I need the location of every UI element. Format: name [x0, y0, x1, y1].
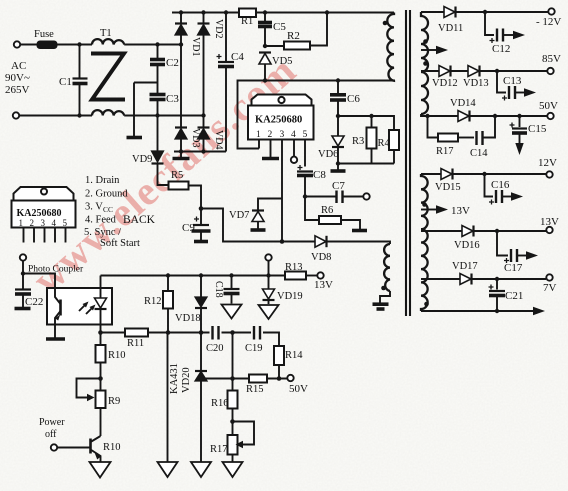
- arrow return C12: [513, 31, 525, 39]
- wire R2 to rail: [310, 13, 327, 46]
- svg-text:C7: C7: [332, 180, 345, 192]
- label AC 90V~265V: [5, 60, 30, 96]
- junction AC bottom to VD2 leg: [201, 113, 205, 117]
- arrow return rail: [533, 307, 545, 315]
- terminal power off: [51, 444, 57, 450]
- svg-text:4: 4: [52, 218, 57, 228]
- fuse F1: [37, 41, 57, 49]
- photo coupler U3 box: [47, 288, 112, 325]
- resistor R2: [284, 42, 310, 50]
- svg-text:off: off: [45, 429, 57, 440]
- arrow light 2: [86, 305, 96, 315]
- svg-text:VD9: VD9: [132, 154, 152, 165]
- resistor R11: [125, 329, 148, 337]
- junction Vcc storage node: [199, 206, 204, 211]
- svg-text:VD11: VD11: [438, 23, 463, 34]
- diode VD2: [198, 13, 210, 128]
- svg-text:5: 5: [63, 218, 68, 228]
- resistor R5: [169, 182, 189, 190]
- junction C15: [517, 114, 521, 118]
- arrow tap upper: [436, 46, 448, 54]
- diode VD19: [263, 276, 275, 305]
- svg-text:1: 1: [19, 218, 24, 228]
- ground bar pin2: [262, 157, 279, 161]
- svg-text:R5: R5: [171, 170, 183, 181]
- svg-text:C17: C17: [504, 262, 523, 274]
- svg-text:VD17: VD17: [452, 261, 478, 272]
- diode VD6: [332, 116, 344, 164]
- diode VD4: [198, 128, 210, 152]
- svg-text:Power: Power: [39, 417, 65, 428]
- svg-text:VD5: VD5: [272, 56, 292, 67]
- terminal 13V output left: [317, 272, 323, 278]
- ground bar bridge negative: [173, 152, 190, 159]
- wire AC bottom: [19, 115, 92, 117]
- svg-text:R3: R3: [352, 136, 364, 147]
- junction VD18 rail: [199, 273, 203, 277]
- junction VD19 rail: [266, 273, 270, 277]
- svg-text:T1: T1: [100, 28, 112, 39]
- capacitor C9 electrolytic: [192, 209, 211, 242]
- terminal -12V: [548, 8, 554, 14]
- resistor R10: [96, 333, 106, 391]
- wire AC top to bridge: [124, 44, 181, 46]
- svg-text:VD8: VD8: [311, 252, 331, 263]
- svg-text:C3: C3: [166, 93, 179, 105]
- svg-text:- 12V: - 12V: [536, 16, 561, 28]
- transistor phototransistor: [55, 288, 61, 325]
- svg-text:R9: R9: [108, 396, 120, 407]
- terminal 85V: [547, 68, 553, 74]
- diode LED coupler: [95, 298, 107, 332]
- potentiometer R9: [77, 379, 106, 437]
- svg-text:VD2: VD2: [213, 19, 224, 38]
- wire VD8 to feedback winding: [327, 242, 390, 245]
- node polarity dot secondary1: [423, 39, 428, 44]
- node polarity dot secondary4: [424, 302, 429, 307]
- junction R9 wiper: [98, 376, 103, 381]
- junction pin5 node: [303, 194, 307, 198]
- capacitor C22: [15, 274, 32, 309]
- svg-text:85V: 85V: [542, 53, 561, 65]
- capacitor C14: [477, 116, 496, 145]
- svg-text:90V~: 90V~: [5, 72, 30, 84]
- capacitor C15 electrolytic: [510, 116, 528, 143]
- svg-text:R1: R1: [241, 16, 253, 27]
- terminal pin4 feed: [291, 157, 297, 163]
- svg-text:VD4: VD4: [213, 130, 224, 149]
- junction C1 top: [77, 42, 81, 46]
- svg-text:KA431: KA431: [169, 363, 180, 394]
- terminal upper aux: [265, 254, 271, 260]
- diode VD20: [195, 333, 207, 463]
- svg-text:R11: R11: [127, 338, 144, 349]
- ground triangle C18: [222, 305, 242, 319]
- wire node to R6: [305, 197, 319, 221]
- junction VD6 bottom: [336, 161, 340, 165]
- ground bar R6: [352, 229, 367, 233]
- junction pin3 on Vcc run: [280, 239, 285, 244]
- svg-text:R2: R2: [287, 30, 300, 42]
- junction C17: [495, 229, 499, 233]
- svg-text:VD1: VD1: [190, 37, 201, 56]
- arrow tap lower: [436, 205, 448, 213]
- svg-text:7V: 7V: [543, 282, 557, 294]
- terminal AC line input bottom: [13, 112, 19, 118]
- arrow light 1: [79, 302, 89, 312]
- svg-text:3. V: 3. V: [85, 202, 103, 213]
- wire drop to R16 node: [232, 333, 234, 379]
- svg-text:50V: 50V: [289, 383, 308, 395]
- ground bar VD6: [331, 164, 346, 172]
- wire R13 to terminal: [306, 275, 317, 277]
- svg-text:2: 2: [268, 130, 273, 140]
- svg-text:R13: R13: [285, 262, 303, 273]
- svg-text:VD18: VD18: [175, 313, 201, 324]
- wire tap arrow lower: [421, 209, 436, 211]
- rail bridge positive top: [172, 12, 394, 14]
- junction R3 top: [369, 114, 373, 118]
- resistor R14: [274, 346, 284, 378]
- svg-text:C8: C8: [313, 169, 326, 181]
- diode VD16: [462, 226, 474, 237]
- ground triangle R17: [223, 462, 243, 477]
- wire 12V line lower: [421, 173, 546, 175]
- svg-text:C9: C9: [182, 222, 195, 234]
- arrow return C16: [511, 192, 523, 200]
- wire 50V line: [421, 114, 547, 116]
- node polarity dot feedback: [381, 286, 386, 291]
- svg-text:C14: C14: [470, 148, 488, 159]
- wire return rail bottom: [421, 310, 533, 312]
- terminal feedback 13V left: [20, 254, 26, 260]
- capacitor C16 electrolytic: [485, 174, 512, 205]
- svg-text:C19: C19: [245, 343, 263, 354]
- ground triangle transistor: [90, 462, 111, 478]
- svg-text:KA250680: KA250680: [255, 115, 302, 126]
- svg-text:R15: R15: [246, 384, 264, 395]
- svg-text:R12: R12: [144, 296, 162, 307]
- wire AC bottom to bridge: [124, 115, 203, 117]
- svg-text:BACK: BACK: [123, 214, 156, 226]
- svg-text:5: 5: [303, 130, 308, 140]
- wire C3 to VD9: [157, 116, 159, 151]
- junction C22: [21, 271, 25, 275]
- junction VD4 bottom: [201, 149, 205, 153]
- diode VD9: [152, 151, 169, 185]
- capacitor C7: [337, 191, 364, 204]
- svg-text:R17: R17: [436, 146, 454, 157]
- inductor secondary top winding: [421, 12, 428, 114]
- svg-text:R10: R10: [108, 350, 126, 361]
- svg-text:50V: 50V: [539, 100, 558, 112]
- ground bar VD7: [251, 228, 266, 232]
- terminal C7 output: [363, 193, 369, 199]
- inductor feedback winding: [384, 244, 390, 291]
- op-amp U2 KA250680 pinout package: [12, 187, 76, 243]
- svg-text:VD20: VD20: [181, 367, 192, 393]
- svg-text:C16: C16: [491, 179, 510, 191]
- resistor R3: [367, 116, 377, 164]
- wire snubber bottom rail: [338, 163, 394, 165]
- svg-text:3: 3: [280, 130, 285, 140]
- diode VD12: [439, 66, 451, 77]
- wire pin3 Vcc column: [281, 140, 283, 242]
- inductor secondary bottom winding: [421, 174, 428, 311]
- resistor R15: [249, 375, 267, 383]
- junction C4 top: [224, 10, 228, 14]
- label Power off: [39, 417, 65, 440]
- junction node R16 drop: [230, 330, 235, 335]
- wire Y-cap midpoint to earth: [134, 83, 158, 137]
- svg-text:AC: AC: [11, 60, 26, 72]
- wire 13V line: [421, 230, 546, 232]
- junction C2 top: [155, 42, 159, 46]
- junction snubber right: [493, 114, 497, 118]
- terminal AC line input top: [14, 41, 20, 47]
- potentiometer R17: [228, 422, 255, 463]
- svg-text:13V: 13V: [540, 216, 559, 228]
- svg-text:C21: C21: [505, 290, 523, 302]
- wire R5 to Vcc node: [189, 186, 202, 209]
- capacitor C21 electrolytic: [489, 279, 506, 311]
- wire feedback rail 13V: [101, 275, 286, 277]
- junction C6 bottom node: [336, 114, 340, 118]
- wire 7V line: [421, 278, 546, 280]
- junction R14 bottom: [277, 376, 282, 381]
- junction node R12: [166, 330, 171, 335]
- arrow return C15 down: [515, 143, 523, 155]
- wire 50V feedback line: [201, 378, 287, 380]
- transistor Q1: [57, 436, 101, 462]
- junction C18 rail: [229, 273, 233, 277]
- capacitor C18: [224, 276, 240, 304]
- wire AC top: [20, 44, 92, 46]
- resistor R4: [389, 130, 399, 164]
- arrow return C17: [526, 251, 538, 259]
- wire pin4 stub: [293, 140, 295, 157]
- junction AC top to VD1 leg: [179, 42, 183, 46]
- junction R2 return rail: [325, 10, 329, 14]
- junction C13: [495, 69, 499, 73]
- wire R6 to ground: [341, 220, 360, 229]
- junction snubber left: [425, 114, 429, 118]
- wire drain line: [238, 81, 396, 149]
- svg-text:C18: C18: [213, 281, 224, 298]
- ground triangle VD20: [191, 462, 211, 477]
- wire tap arrow upper: [421, 49, 436, 51]
- svg-text:CC: CC: [103, 205, 113, 214]
- svg-text:C2: C2: [166, 57, 179, 69]
- junction VD5 drain: [263, 78, 267, 82]
- resistor R6: [319, 216, 341, 224]
- junction C6 drain: [336, 78, 340, 82]
- inductor T1 top winding: [92, 39, 124, 44]
- ground earth bar line filter: [127, 136, 143, 140]
- capacitor C1: [73, 45, 88, 116]
- resistor R1: [239, 9, 256, 18]
- node clamp B: [263, 44, 267, 48]
- watermark elecfans: [23, 46, 304, 302]
- junction R17 wiper: [230, 419, 235, 424]
- capacitor C12 electrolytic: [485, 12, 513, 43]
- ground earth feedback: [373, 304, 389, 309]
- wire Vcc branch to VD7: [258, 199, 282, 211]
- wire emitter to ground: [54, 325, 56, 338]
- inductor primary winding: [387, 13, 394, 81]
- junction C16: [482, 172, 486, 176]
- rail bridge negative: [174, 151, 226, 153]
- capacitor C8 electrolytic: [297, 165, 313, 197]
- junction VD2 top: [201, 10, 205, 14]
- svg-text:VD13: VD13: [463, 78, 489, 89]
- terminal 12V: [546, 171, 552, 177]
- svg-text:5. Sync /: 5. Sync /: [84, 227, 121, 238]
- svg-text:13V: 13V: [314, 279, 333, 291]
- wire KA431 node line: [101, 333, 280, 347]
- junction C1 bottom: [77, 113, 81, 117]
- resistor R16: [228, 379, 238, 436]
- resistor R17 snubber: [428, 116, 475, 142]
- arrow return C13: [524, 88, 536, 96]
- wire 85V line: [421, 70, 547, 72]
- svg-text:R10: R10: [103, 442, 121, 453]
- ground bar coupler emitter: [46, 337, 65, 341]
- inductor T1 bottom winding: [92, 110, 124, 115]
- junction C12: [483, 10, 487, 14]
- svg-text:4. Feed: 4. Feed: [85, 215, 117, 226]
- diode VD3: [175, 128, 187, 152]
- diode VD8: [315, 236, 327, 247]
- svg-text:R4: R4: [378, 138, 391, 149]
- diode VD5: [259, 53, 271, 81]
- node polarity dot primary: [383, 21, 388, 26]
- node polarity dot secondary2: [423, 61, 428, 66]
- svg-text:C15: C15: [528, 123, 547, 135]
- svg-text:VD16: VD16: [454, 240, 480, 251]
- svg-text:4: 4: [291, 130, 296, 140]
- wire snubber top rail: [338, 116, 394, 130]
- diode VD11: [444, 7, 456, 18]
- wire feedback winding to ground: [380, 291, 390, 303]
- wire Vcc node to VD8 run: [201, 209, 315, 242]
- core T1 Z symbol: [91, 54, 125, 100]
- wire aux terminal down: [268, 261, 270, 276]
- core transformer lines: [406, 10, 410, 316]
- wire terminal to coupler collector: [23, 261, 55, 288]
- svg-text:VD7: VD7: [229, 210, 249, 221]
- diode VD15: [441, 169, 453, 180]
- wire rail to LED anode: [100, 276, 102, 299]
- junction C5 top: [263, 10, 267, 14]
- capacitor C3: [150, 83, 166, 116]
- diode VD14: [458, 111, 470, 122]
- svg-text:VD12: VD12: [432, 78, 458, 89]
- diode VD13: [468, 66, 480, 77]
- terminal 13V: [546, 227, 552, 233]
- svg-text:Fuse: Fuse: [34, 29, 54, 40]
- terminal 50V top: [547, 113, 553, 119]
- junction LED cathode: [98, 330, 103, 335]
- capacitor C6: [330, 81, 346, 117]
- op-amp U1 KA250680 controller package: [248, 95, 314, 140]
- svg-text:C1: C1: [59, 76, 72, 88]
- svg-text:2: 2: [30, 218, 35, 228]
- svg-text:VD6: VD6: [318, 149, 338, 160]
- resistor R12: [163, 276, 173, 333]
- wire pin5 stub: [304, 140, 306, 167]
- svg-text:C4: C4: [231, 51, 244, 63]
- capacitor C2: [150, 45, 165, 83]
- svg-text:C12: C12: [492, 43, 510, 55]
- junction C3 bottom: [155, 113, 159, 117]
- junction R16 top: [230, 376, 235, 381]
- svg-text:3: 3: [41, 218, 46, 228]
- capacitor C5: [258, 13, 272, 47]
- svg-text:C20: C20: [206, 343, 224, 354]
- wire pin2 ground stub: [270, 140, 272, 158]
- junction VD3 bottom: [179, 149, 183, 153]
- wire KA431 cathode column: [167, 333, 169, 463]
- diode VD17: [460, 274, 472, 285]
- svg-text:C13: C13: [503, 75, 522, 87]
- wire pin1 drain stub: [258, 140, 260, 149]
- svg-text:R6: R6: [321, 205, 333, 216]
- svg-text:2. Ground: 2. Ground: [85, 189, 128, 200]
- capacitor C19: [254, 326, 260, 340]
- terminal 7V: [546, 274, 552, 280]
- ground triangle VD19: [259, 305, 279, 319]
- svg-text:VD14: VD14: [450, 98, 476, 109]
- svg-text:R16: R16: [211, 398, 229, 409]
- node polarity dot secondary3: [422, 202, 427, 207]
- svg-text:C5: C5: [273, 21, 286, 33]
- capacitor C17 electrolytic: [497, 231, 526, 263]
- svg-text:265V: 265V: [5, 84, 30, 96]
- svg-text:R14: R14: [285, 350, 303, 361]
- diode VD18: [195, 276, 207, 333]
- wire clamp node to R2: [265, 45, 284, 47]
- wire node to C7: [305, 196, 336, 198]
- junction C21: [495, 277, 499, 281]
- svg-text:13V: 13V: [451, 205, 470, 217]
- diode VD1: [175, 13, 187, 128]
- terminal 50V output left: [287, 375, 293, 381]
- svg-text:12V: 12V: [538, 157, 557, 169]
- junction node VD18: [199, 330, 204, 335]
- junction VD1 top: [179, 10, 183, 14]
- svg-text:C22: C22: [25, 296, 43, 308]
- svg-text:VD15: VD15: [435, 182, 461, 193]
- ground triangle KA431: [158, 462, 178, 477]
- capacitor C20: [213, 326, 219, 340]
- wire -12V output line: [421, 11, 548, 13]
- junction R12 rail: [166, 273, 170, 277]
- svg-text:R17: R17: [210, 444, 228, 455]
- legend pin description: [84, 175, 156, 249]
- svg-text:1: 1: [256, 130, 261, 140]
- diode VD7: [252, 211, 264, 229]
- svg-text:VD19: VD19: [277, 291, 303, 302]
- resistor R13: [285, 272, 306, 280]
- svg-text:1. Drain: 1. Drain: [85, 175, 120, 186]
- svg-text:Soft Start: Soft Start: [100, 238, 140, 249]
- capacitor C4 electrolytic: [217, 13, 235, 152]
- svg-text:C6: C6: [347, 93, 360, 105]
- junction C21 bottom: [495, 309, 499, 313]
- capacitor C13 electrolytic: [497, 71, 524, 101]
